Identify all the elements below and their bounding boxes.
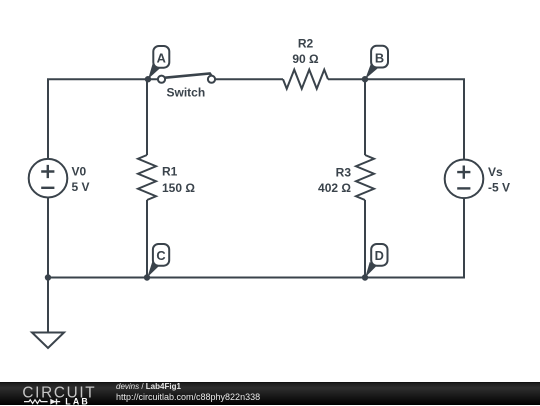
svg-text:R1: R1 [162,165,178,179]
voltage source V0 [29,159,68,198]
junction dot node A [145,76,151,82]
svg-text:V0: V0 [72,165,87,179]
svg-text:B: B [375,51,384,66]
node B box [371,46,388,68]
svg-text:5 V: 5 V [72,180,90,194]
junction dot node B [362,76,368,82]
resistor R3 [356,155,374,200]
junction dot bottom-left [45,274,51,280]
wire switch to R2 [215,78,283,80]
resistor R1 [138,155,156,200]
wire R3 down to node D [364,200,366,278]
svg-text:Vs: Vs [488,165,503,179]
wire bottom horizontal with right column lower (Vs to bottom wire) [48,198,464,277]
resistor R2 [283,70,328,89]
node A pointer [148,64,160,79]
wire node B down to R3 [364,79,366,155]
svg-text:C: C [156,248,165,263]
node D pointer [365,262,376,277]
wire ground stub [47,278,49,333]
junction dot node C [144,274,150,280]
node C pointer [147,262,159,277]
wire node A down to R1 [146,79,148,155]
voltage source Vs [445,160,484,199]
svg-text:90 Ω: 90 Ω [292,52,319,66]
label R2 value [292,37,319,67]
node A box [153,46,169,68]
switch lever [165,74,212,78]
node B pointer [365,64,378,79]
node D box [371,244,387,266]
svg-text:150 Ω: 150 Ω [162,181,195,195]
footer url text [116,392,260,402]
wire R1 down to node C [146,200,148,278]
svg-text:R2: R2 [298,37,314,51]
switch terminal circle right [208,76,215,83]
label Vs value [488,165,510,195]
label R3 value [318,166,351,196]
label R1 value [162,165,195,196]
label V0 value [72,165,90,195]
ground [32,333,64,349]
svg-text:D: D [375,248,384,263]
svg-text:402 Ω: 402 Ω [318,181,351,195]
svg-text:-5 V: -5 V [488,181,510,195]
footer title text [116,382,181,391]
wire left column lower (V0 to bottom wire) [47,198,49,278]
node C box [153,244,169,266]
junction dot node D [362,274,368,280]
svg-text:Switch: Switch [167,86,206,100]
wire top-left: V0 up then right to node A [48,79,158,159]
svg-text:A: A [157,50,166,65]
switch terminal circle left [158,76,165,83]
wire R2 to node B to top-right corner down to Vs [328,79,464,159]
svg-text:R3: R3 [336,166,352,180]
CircuitLab logo [0,383,110,406]
